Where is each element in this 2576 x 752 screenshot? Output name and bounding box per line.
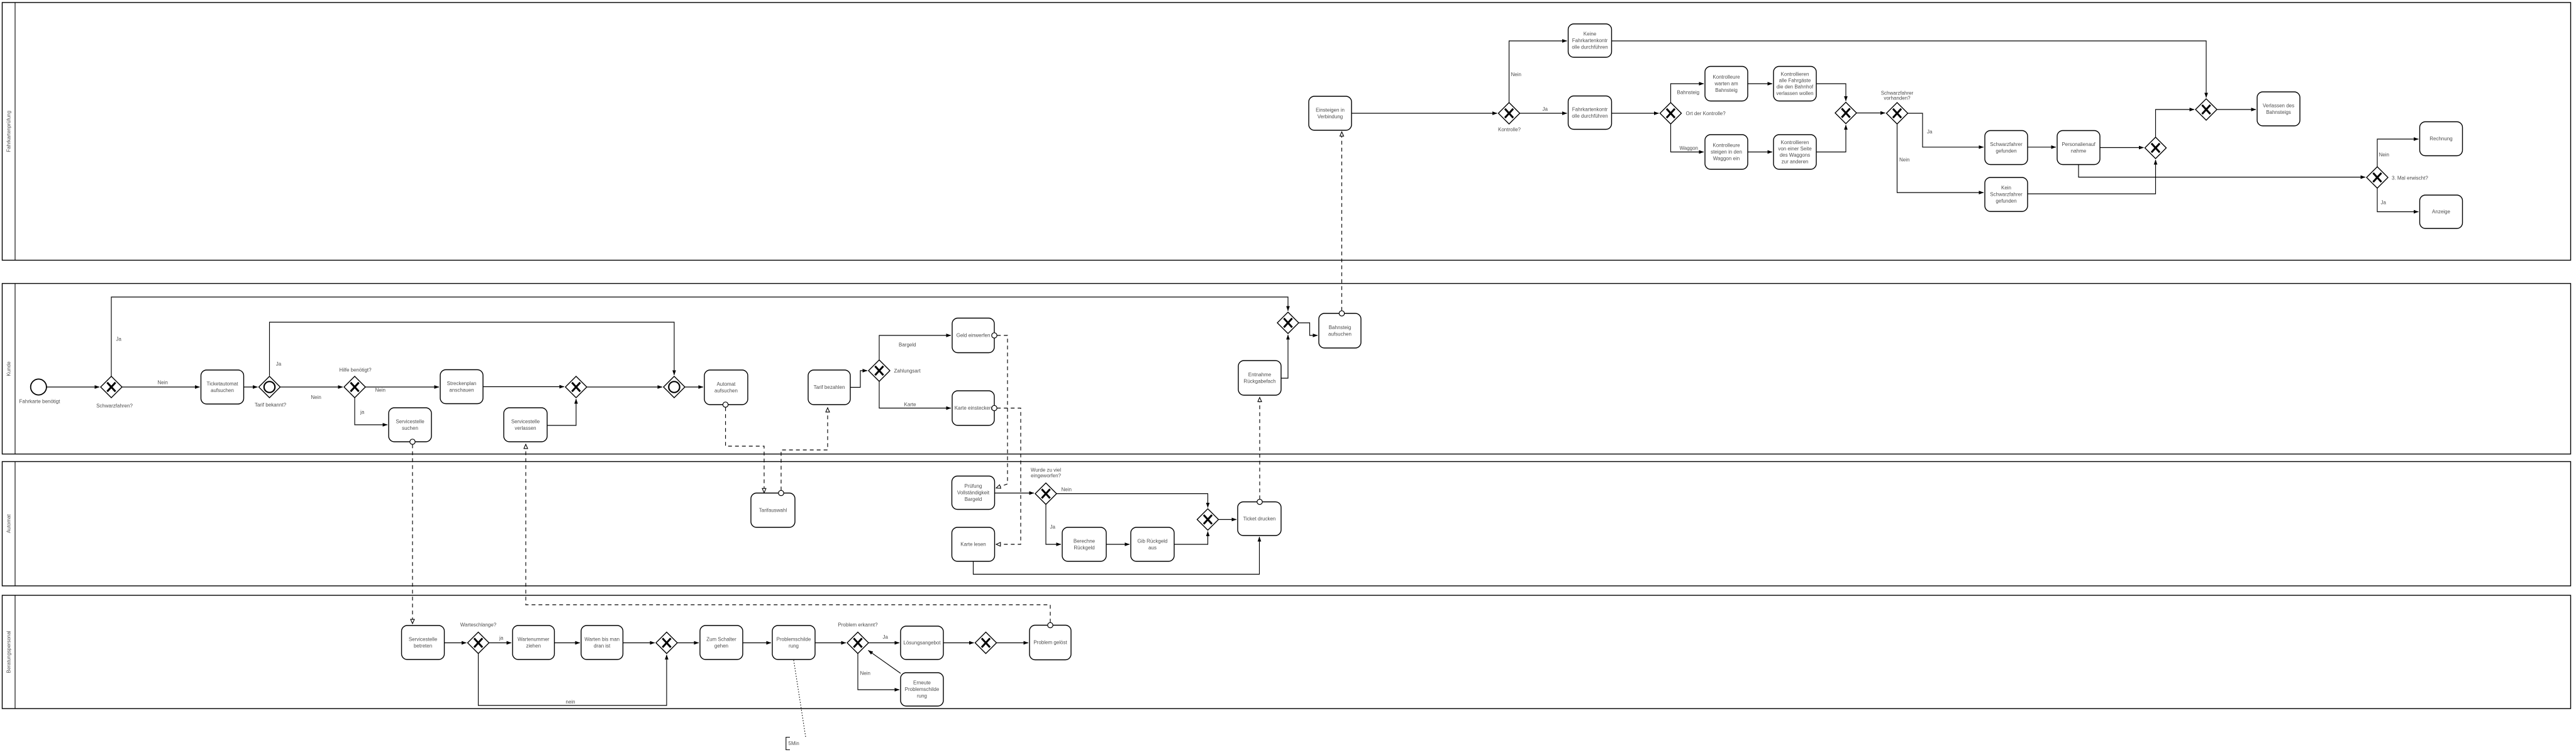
task Kein Schwarzfahrer gefunden bbox=[1985, 177, 2028, 211]
svg-text:Ja: Ja bbox=[1927, 129, 1933, 135]
wire merge->Problem geloest bbox=[997, 643, 1029, 644]
wire Geld einwerfen->Pruefung (message flow) bbox=[992, 333, 1008, 488]
task Problem geloest bbox=[1030, 626, 1071, 660]
task Tarifauswahl bbox=[751, 493, 795, 528]
pool Fahrkartenpruefung bbox=[3, 3, 2571, 261]
wire Loesungsangebot->merge bbox=[943, 643, 974, 644]
svg-text:Karte einstecken: Karte einstecken bbox=[955, 405, 992, 411]
wire Gib->merge bbox=[1174, 532, 1208, 545]
wire Tarif bekannt? Nein->Hilfe bbox=[280, 386, 343, 388]
pool Automat bbox=[3, 462, 2571, 586]
gateway merge Problem bbox=[975, 632, 997, 654]
task Servicestelle betreten bbox=[402, 626, 445, 659]
wire Problem geloest->Servicestelle verlassen (message flow) bbox=[526, 444, 1053, 628]
svg-text:Tarifauswahl: Tarifauswahl bbox=[759, 507, 787, 513]
wire Servicestelle verlassen->merge Hilfe bbox=[547, 399, 576, 425]
task Kontrollieren von einer Seite bbox=[1774, 135, 1816, 169]
wire Ticketautomat->Tarif bekannt? bbox=[244, 386, 258, 388]
svg-text:Kontrolleuresteigen in denWagg: Kontrolleuresteigen in denWaggon ein bbox=[1711, 143, 1742, 162]
task Anzeige bbox=[2420, 195, 2463, 228]
svg-text:Fahrkartenprüfung: Fahrkartenprüfung bbox=[6, 111, 12, 152]
svg-text:Rechnung: Rechnung bbox=[2429, 136, 2452, 142]
wire Kontrollieren Seite->merge bbox=[1816, 125, 1846, 152]
wire Ja->Schwarzfahrer gefunden bbox=[1908, 113, 1984, 147]
task Warten bis man dran ist bbox=[581, 626, 623, 659]
svg-text:Zahlungsart: Zahlungsart bbox=[894, 368, 921, 374]
svg-text:Kontrollierenalle Fahrgästedie: Kontrollierenalle Fahrgästedie den Bahnh… bbox=[1776, 71, 1813, 96]
wire Ort->Kontrolleure steigen bbox=[1671, 124, 1704, 152]
wire steigen->Kontrollieren Seite bbox=[1748, 152, 1772, 153]
svg-text:Tarif bekannt?: Tarif bekannt? bbox=[255, 402, 287, 408]
task Geld einwerfen bbox=[952, 318, 994, 353]
wire Keine Kontrolle->merge vor Verlassen bbox=[1612, 41, 2207, 98]
wire Wurde Nein->merge bbox=[1057, 494, 1208, 508]
svg-text:vorhanden?: vorhanden? bbox=[1884, 96, 1911, 101]
wire betreten->Warteschlange? bbox=[445, 643, 467, 644]
wire Ort->Kontrolleure warten bbox=[1671, 84, 1704, 103]
svg-text:Warteschlange?: Warteschlange? bbox=[460, 622, 497, 627]
wire Kontrollieren alle->merge bbox=[1816, 84, 1846, 101]
task Rechnung bbox=[2420, 122, 2463, 156]
task Kontrollieren alle Fahrgaeste bbox=[1774, 67, 1816, 101]
pool Kunde bbox=[3, 284, 2571, 454]
svg-text:Fahrkartenkontrolle durchführe: Fahrkartenkontrolle durchführen bbox=[1572, 106, 1607, 118]
wire Schwarzfahren? Nein->Ticketautomat bbox=[122, 386, 200, 388]
wire merge->Verlassen des Bahnsteigs bbox=[2217, 109, 2256, 110]
svg-text:Nein: Nein bbox=[375, 388, 386, 393]
gateway Schwarzfahren? bbox=[101, 376, 122, 398]
svg-text:Nein: Nein bbox=[860, 671, 870, 676]
svg-text:ja: ja bbox=[360, 410, 365, 415]
wire Bahnsteig aufsuchen->Einsteigen (message flow) bbox=[1339, 132, 1344, 317]
task Servicestelle suchen bbox=[389, 408, 431, 442]
svg-text:eingeworfen?: eingeworfen? bbox=[1031, 473, 1062, 479]
svg-text:5Min: 5Min bbox=[789, 741, 799, 746]
wire Zum Schalter->Problemschilderung bbox=[743, 643, 771, 644]
wire Fahrkartenkontrolle->Ort bbox=[1612, 113, 1659, 114]
gateway Problem erkannt? bbox=[847, 632, 869, 654]
wire Karte einstecken->Karte lesen (message flow) bbox=[992, 405, 1021, 544]
svg-text:Bahnsteigaufsuchen: Bahnsteigaufsuchen bbox=[1328, 325, 1352, 337]
wire Berechne->Gib Rueckgeld bbox=[1106, 544, 1130, 545]
wire Pruefung->Wurde zu viel bbox=[995, 493, 1035, 494]
annotation 5Min bbox=[786, 738, 799, 750]
gateway Zahlungsart bbox=[869, 360, 890, 381]
wire merge->Schwarzfahrer vorhanden? bbox=[1857, 113, 1885, 114]
svg-text:Problem gelöst: Problem gelöst bbox=[1033, 640, 1067, 646]
svg-text:Ja: Ja bbox=[2381, 200, 2387, 206]
task Wartenummer ziehen bbox=[513, 626, 555, 659]
start event Fahrkarte benoetigt bbox=[31, 379, 47, 395]
task Karte einstecken bbox=[952, 391, 994, 425]
wire start->Schwarzfahren? bbox=[47, 386, 99, 388]
wire Streckenplan->merge Hilfe bbox=[483, 386, 564, 388]
wire Tarif bekannt? Ja->merge Tarif bbox=[270, 322, 675, 376]
task Problemschilderung bbox=[772, 626, 815, 659]
wire Nein->Kein Schwarzfahrer bbox=[1897, 124, 1984, 193]
wire Ticket drucken->Entnahme (message flow) bbox=[1257, 398, 1262, 505]
svg-text:Kontrolleurewarten amBahnsteig: Kontrolleurewarten amBahnsteig bbox=[1713, 74, 1740, 93]
svg-text:Hilfe benötigt?: Hilfe benötigt? bbox=[339, 368, 372, 373]
svg-text:Ja: Ja bbox=[883, 634, 889, 640]
wire Erneute->Problem erkannt? bbox=[869, 651, 901, 674]
task Verlassen des Bahnsteigs bbox=[2257, 92, 2300, 126]
svg-text:Geld einwerfen: Geld einwerfen bbox=[957, 333, 991, 339]
wire Warteschlange ja->Wartenummer bbox=[489, 643, 512, 644]
wire Warten->merge bbox=[623, 643, 655, 644]
svg-text:Fahrkarte benötigt: Fahrkarte benötigt bbox=[19, 399, 61, 405]
gateway Schwarzfahrer vorhanden? bbox=[1887, 103, 1908, 124]
gateway merge Personalien bbox=[2145, 137, 2167, 159]
svg-text:Karte lesen: Karte lesen bbox=[960, 542, 985, 547]
task Automat aufsuchen bbox=[704, 370, 748, 405]
gateway Wurde zu viel eingeworfen? bbox=[1035, 483, 1057, 505]
svg-text:Nein: Nein bbox=[311, 395, 321, 400]
svg-text:Ticketautomataufsuchen: Ticketautomataufsuchen bbox=[207, 381, 239, 393]
wire Wartenummer->Warten bbox=[555, 643, 580, 644]
task Fahrkartenkontrolle durchfuehren bbox=[1568, 96, 1612, 130]
wire 3.Mal Nein->Rechnung bbox=[2377, 139, 2419, 167]
svg-text:Streckenplananschauen: Streckenplananschauen bbox=[447, 381, 477, 393]
svg-text:Nein: Nein bbox=[1899, 157, 1909, 163]
wire Personalien->merge bbox=[2100, 147, 2144, 149]
task Kontrolleure warten am Bahnsteig bbox=[1705, 67, 1748, 101]
wire Tarifauswahl->Tarif bezahlen (message flow) bbox=[779, 408, 828, 496]
wire Problemschilderung->Problem erkannt? bbox=[815, 643, 846, 644]
svg-text:Waggon: Waggon bbox=[1680, 145, 1699, 151]
task Tarif bezahlen bbox=[808, 370, 850, 405]
wire merge Einsteigen->Bahnsteig aufsuchen bbox=[1299, 323, 1318, 335]
wire Hilfe Nein->Streckenplan bbox=[365, 386, 439, 388]
task Streckenplan anschauen bbox=[440, 370, 483, 404]
wire Entnahme->merge Einsteigen bbox=[1281, 335, 1288, 378]
task Personalienaufnahme bbox=[2057, 131, 2100, 165]
wire Problem Ja->Loesungsangebot bbox=[869, 643, 899, 644]
gateway Kontrolle? bbox=[1499, 103, 1520, 124]
task Bahnsteig aufsuchen bbox=[1319, 313, 1361, 348]
task Berechne Rueckgeld bbox=[1062, 527, 1106, 561]
svg-text:BerechneRückgeld: BerechneRückgeld bbox=[1074, 538, 1096, 550]
gateway merge Kontrolle bbox=[1835, 103, 1857, 124]
gateway merge Warteschlange bbox=[656, 632, 677, 654]
pool Beratungspersonal bbox=[3, 595, 2571, 709]
wire Tarif bezahlen->Zahlungsart bbox=[850, 371, 867, 388]
wire Personalien->3.Mal bbox=[2079, 165, 2365, 177]
svg-text:ja: ja bbox=[499, 636, 504, 641]
task Loesungsangebot bbox=[901, 626, 943, 659]
wire Kontrolle? Nein->Keine Kontrolle bbox=[1509, 41, 1567, 103]
svg-text:Lösungsangebot: Lösungsangebot bbox=[903, 640, 941, 646]
wire Karte lesen->Ticket drucken bbox=[974, 537, 1260, 575]
task Ticketautomat aufsuchen bbox=[201, 370, 244, 404]
wire Schwarzfahren? Ja->merge Einsteigen bbox=[111, 297, 1288, 376]
svg-text:Kontrollierenvon einer Seitede: Kontrollierenvon einer Seitedes Waggonsz… bbox=[1778, 140, 1812, 165]
svg-text:Nein: Nein bbox=[1511, 72, 1521, 77]
wire merge->Zum Schalter bbox=[677, 643, 699, 644]
wire merge Tarif->Automat aufsuchen bbox=[685, 386, 703, 388]
task Kontrolleure steigen in den Waggon ein bbox=[1705, 135, 1748, 169]
wire Kein Schwarzfahrer->merge bbox=[2028, 160, 2156, 194]
task Gib Rueckgeld aus bbox=[1131, 527, 1174, 561]
wire Zahlungsart Bargeld->Geld einwerfen bbox=[879, 335, 951, 360]
svg-text:Ja: Ja bbox=[1543, 106, 1548, 112]
task Servicestelle verlassen bbox=[504, 408, 547, 442]
wire Zahlungsart Karte->Karte einstecken bbox=[879, 381, 951, 408]
gateway merge Einsteigen bbox=[1277, 312, 1299, 334]
svg-text:Wurde zu viel: Wurde zu viel bbox=[1031, 468, 1062, 473]
svg-text:Ja: Ja bbox=[1050, 524, 1056, 530]
gateway Ort der Kontrolle? bbox=[1660, 103, 1682, 124]
svg-text:Nein: Nein bbox=[1062, 487, 1072, 493]
svg-text:Automat: Automat bbox=[6, 514, 12, 534]
wire Einsteigen->Kontrolle? bbox=[1352, 113, 1497, 114]
wire Problem Nein->Erneute bbox=[858, 654, 899, 690]
svg-text:Schwarzfahren?: Schwarzfahren? bbox=[96, 403, 133, 409]
gateway merge Rueckgeld bbox=[1197, 509, 1219, 530]
gateway merge Tarif bbox=[663, 376, 685, 398]
svg-text:Ja: Ja bbox=[276, 361, 282, 367]
svg-text:Ticket drucken: Ticket drucken bbox=[1243, 516, 1276, 522]
svg-text:Einsteigen inVerbindung: Einsteigen inVerbindung bbox=[1316, 107, 1345, 119]
wire Schwarzfahrer gefunden->Personalien bbox=[2028, 147, 2056, 148]
task Entnahme Rueckgabefach bbox=[1238, 361, 1281, 395]
wire Automat aufsuchen->Tarifauswahl (message flow) bbox=[723, 402, 764, 493]
gateway merge vor Verlassen bbox=[2196, 99, 2217, 120]
task Zum Schalter gehen bbox=[700, 626, 743, 659]
svg-text:Anzeige: Anzeige bbox=[2432, 209, 2450, 215]
task Schwarzfahrer gefunden bbox=[1985, 131, 2028, 165]
gateway Tarif bekannt? bbox=[259, 376, 280, 398]
wire Kontrolle? Ja->Fahrkartenkontrolle bbox=[1520, 113, 1567, 114]
gateway Warteschlange? bbox=[468, 632, 489, 654]
svg-text:Automataufsuchen: Automataufsuchen bbox=[714, 381, 738, 393]
wire Hilfe ja->Servicestelle suchen bbox=[355, 398, 387, 425]
svg-text:Beratungspersonal: Beratungspersonal bbox=[6, 631, 12, 673]
task Erneute Problemschilderung bbox=[901, 673, 943, 706]
wire warten->Kontrollieren alle bbox=[1748, 83, 1772, 84]
gateway merge Hilfe bbox=[565, 376, 587, 398]
wire Warteschlange nein->merge bbox=[479, 654, 667, 706]
task Karte lesen bbox=[952, 527, 995, 561]
wire merge->Ticket drucken bbox=[1219, 519, 1236, 520]
svg-text:Karte: Karte bbox=[904, 402, 917, 408]
svg-text:Bargeld: Bargeld bbox=[899, 342, 916, 348]
svg-text:Verlassen desBahnsteigs: Verlassen desBahnsteigs bbox=[2263, 103, 2294, 115]
wire merge->merge vor Verlassen bbox=[2156, 109, 2195, 137]
svg-text:Kunde: Kunde bbox=[6, 361, 12, 376]
wire merge Hilfe->merge Tarif bbox=[587, 386, 662, 388]
svg-text:Servicestelleverlassen: Servicestelleverlassen bbox=[511, 418, 540, 430]
svg-text:EntnahmeRückgabefach: EntnahmeRückgabefach bbox=[1243, 372, 1275, 384]
svg-text:Ort der Kontrolle?: Ort der Kontrolle? bbox=[1686, 111, 1726, 116]
gateway 3. Mal erwischt? bbox=[2367, 167, 2388, 188]
svg-text:Problem erkannt?: Problem erkannt? bbox=[838, 622, 878, 628]
task Keine Fahrkartenkontrolle durchfuehren bbox=[1568, 24, 1612, 57]
wire Wurde Ja->Berechne bbox=[1046, 505, 1061, 545]
svg-text:Nein: Nein bbox=[2379, 152, 2389, 158]
svg-text:Tarif bezahlen: Tarif bezahlen bbox=[814, 384, 845, 390]
svg-text:3. Mal erwischt?: 3. Mal erwischt? bbox=[2392, 176, 2428, 181]
gateway Hilfe benoetigt? bbox=[344, 376, 365, 398]
wire Servicestelle suchen->betreten (message flow) bbox=[410, 439, 415, 624]
task Ticket drucken bbox=[1238, 502, 1281, 536]
task Einsteigen in Verbindung bbox=[1309, 96, 1352, 130]
annotation link (dotted) bbox=[794, 660, 806, 737]
svg-text:Ja: Ja bbox=[116, 337, 122, 342]
task Pruefung Vollstaendigkeit Bargeld bbox=[952, 476, 995, 510]
wire 3.Mal Ja->Anzeige bbox=[2377, 188, 2419, 212]
svg-text:Kontrolle?: Kontrolle? bbox=[1498, 127, 1521, 133]
svg-text:nein: nein bbox=[566, 699, 575, 705]
svg-text:Nein: Nein bbox=[158, 380, 168, 386]
svg-text:Bahnsteig: Bahnsteig bbox=[1677, 90, 1700, 96]
